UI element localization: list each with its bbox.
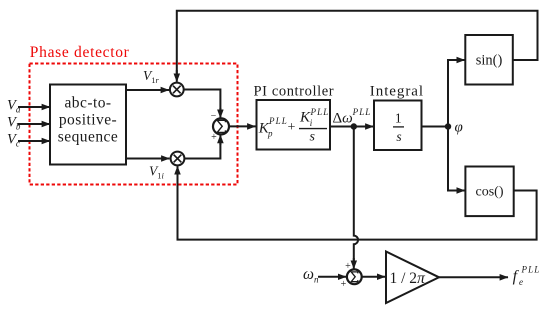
wire summer to PI controller (229, 125, 256, 127)
svg-text:φ: φ (455, 120, 463, 136)
wire V1r: abc block to top multiplier (126, 89, 169, 91)
svg-text:+: + (211, 132, 217, 143)
svg-text:positive-: positive- (59, 112, 117, 129)
gain triangle 1/2pi (386, 252, 439, 304)
wire sin feedback to top multiplier (177, 11, 538, 74)
multiplier X1 (top) (170, 83, 184, 97)
svg-text:PI controller: PI controller (254, 84, 335, 100)
node Va input arrow (18, 106, 50, 108)
svg-text:e: e (519, 277, 523, 287)
Phase detector dashed box (30, 64, 238, 185)
svg-text:cos(): cos() (476, 185, 504, 200)
svg-text:+: + (341, 279, 347, 290)
wire V1i: abc block to bottom multiplier (126, 158, 170, 160)
wire delta-omega down to bottom summer with hop over feedback line (354, 127, 358, 263)
wire top multiplier to summer (184, 90, 221, 113)
junction dot delta-omega (351, 123, 357, 129)
svg-text:PLL: PLL (268, 116, 288, 126)
svg-text:sin(): sin() (476, 53, 503, 69)
svg-text:PLL: PLL (521, 265, 541, 275)
cos block U4 (465, 167, 513, 217)
svg-text:p: p (267, 129, 273, 139)
wire PI controller to Integral (330, 126, 374, 128)
svg-text:sequence: sequence (58, 129, 118, 146)
wire bottom multiplier to summer (184, 141, 220, 159)
svg-text:+: + (345, 261, 351, 272)
junction dot phi (445, 123, 451, 129)
svg-text:1: 1 (395, 111, 402, 126)
svg-text:1 / 2π: 1 / 2π (390, 270, 427, 287)
svg-text:−: − (211, 111, 217, 122)
svg-text:abc-to-: abc-to- (64, 95, 111, 112)
multiplier X2 (bottom) (171, 152, 185, 166)
wire Integral to phi junction (422, 126, 449, 128)
svg-text:PLL: PLL (352, 107, 372, 117)
wire phi junction down to cos (448, 127, 458, 191)
sin block U3 (465, 35, 513, 85)
svg-text:Phase detector: Phase detector (30, 44, 130, 61)
wire triangle output to fe (439, 276, 508, 278)
abc-to-positive-sequence block (50, 85, 126, 165)
svg-text:PLL: PLL (310, 107, 330, 117)
summer S2 (bottom) (341, 261, 362, 290)
svg-text:s: s (396, 129, 401, 144)
wire cos feedback to bottom multiplier (178, 174, 537, 240)
wire summer to gain triangle (362, 276, 385, 278)
PI controller block U1 (257, 100, 331, 150)
svg-text:+: + (288, 120, 296, 135)
node Vb input arrow (18, 123, 50, 125)
svg-text:s: s (310, 129, 316, 144)
svg-text:Integral: Integral (370, 84, 424, 100)
summer S1 (211, 111, 229, 143)
svg-text:Δω: Δω (333, 111, 353, 127)
Integral block U2 (374, 101, 422, 151)
wire phi junction up to sin (448, 60, 458, 127)
node Vc input arrow (18, 140, 50, 142)
wire omega-n to summer (318, 276, 346, 278)
